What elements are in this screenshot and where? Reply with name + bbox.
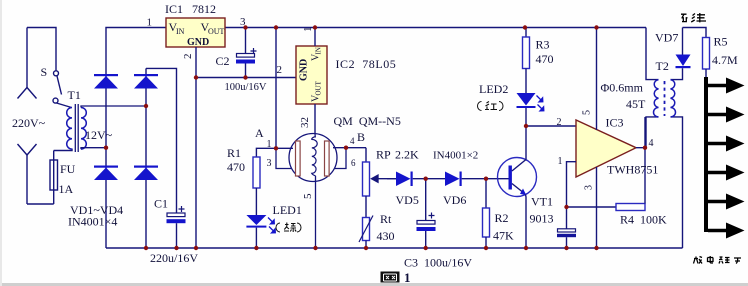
svg-text:47K: 47K [493,229,514,243]
svg-text:6: 6 [351,158,356,168]
op-amp IC3 TWH8751 triangle [576,120,636,177]
diode VD3 [94,168,118,181]
svg-text:QM QM--N5: QM QM--N5 [334,114,401,128]
node gnd link IC1 [194,75,198,79]
wire R5 to discharge bar [705,69,707,78]
svg-text:LED1: LED1 [273,203,302,217]
node B [344,146,348,150]
wire VD6 to VT1 base [462,178,509,180]
wire node B to RP [365,148,367,162]
plug prong lower [18,144,37,155]
wire ground bottom bus [106,247,683,249]
node R2 base [484,177,488,181]
wire switch to T1 primary [57,103,72,108]
wire IC1 pin2 GND down [195,47,197,248]
QM left pins [276,147,293,149]
svg-text:GND: GND [187,37,209,48]
node gnd IC3 pin3 [594,246,598,250]
edge artifacts [0,283,748,286]
svg-text:R1: R1 [227,146,241,160]
svg-text:9013: 9013 [530,212,554,226]
svg-text:C2: C2 [216,54,230,68]
svg-text:1: 1 [302,27,314,33]
label IC2 VIN [311,47,323,61]
svg-text:4: 4 [350,136,355,146]
IC1 7812 box [166,18,225,47]
svg-text:R4 100K: R4 100K [620,213,667,227]
svg-text:R5: R5 [714,35,728,49]
label IC2 VOUT [311,80,323,102]
node gnd VT1 [524,246,528,250]
svg-text:T2: T2 [656,59,669,73]
svg-text:100u/16V: 100u/16V [225,82,267,93]
wire bridge chain1 [105,75,107,248]
wire +12V to node A [275,28,277,149]
wire T2 secondary top to VD7 [671,68,683,79]
node top bus A [274,25,278,29]
node IC3 output [643,146,647,150]
wire output to R4 [644,148,646,204]
svg-text:5: 5 [302,193,314,199]
wire IC2 VOUT down to QM heater [314,104,316,134]
svg-text:OUT: OUT [208,27,225,36]
svg-text:2: 2 [557,117,562,128]
wire T1 secondary bottom to bridge [81,148,106,149]
wire bus end down to T2 primary [646,28,659,80]
svg-text:A: A [255,126,264,140]
capacitor C1 [167,206,186,248]
caption figure 1 [381,270,411,285]
node A [274,146,278,150]
svg-text:1: 1 [404,270,411,285]
svg-text:470: 470 [227,160,245,174]
svg-text:1: 1 [558,156,563,167]
label (green) [276,223,301,232]
wire RP wiper to VD5 [387,178,396,180]
svg-text:R2: R2 [495,211,509,225]
svg-text:220u/16V: 220u/16V [150,251,198,265]
svg-text:IC3: IC3 [606,116,624,130]
svg-text:GND: GND [299,59,310,81]
resistor R4 [616,204,645,211]
svg-text:VD6: VD6 [443,193,466,207]
discharge terminal bar and arrows [704,77,745,239]
node top bus C2 [243,25,247,29]
resistor R5 [703,38,710,70]
wire VT1 emitter down [525,195,528,249]
node LED2 collector [524,124,528,128]
node gnd C1 [174,246,178,250]
wire LED2/VT1 node to IC3 pin2 [526,125,576,127]
svg-text:IN: IN [176,27,185,36]
fuse FU [53,151,55,205]
svg-text:1: 1 [267,139,272,150]
node gnd C3 [424,246,428,250]
wire T2 primary bottom to output node [646,117,659,148]
wire T2 secondary bottom to ground [671,117,683,248]
svg-text:B: B [357,130,365,144]
svg-text:S: S [41,65,48,79]
QM heater coil [312,137,317,176]
svg-text:T1: T1 [68,88,81,102]
wire fuse to T1 primary [54,149,72,151]
wire plug top to switch [27,28,56,71]
node gnd QM5 [313,246,317,250]
svg-text:470: 470 [536,52,554,66]
wire IC3 pin5 to bus [596,28,598,131]
wire IC3 pin1 feedback [567,162,577,207]
node gnd Rt [364,246,368,250]
svg-text:1: 1 [147,17,153,29]
diode VD6 [445,172,462,187]
glyph red CJK [485,102,497,110]
wire RP to Rt [365,196,367,218]
bridge rectifier VD1~VD4 [106,68,177,248]
svg-text:FU: FU [60,162,76,176]
svg-text:IN4001×2: IN4001×2 [433,150,478,162]
svg-text:C1: C1 [154,197,168,211]
potentiometer RP [363,162,397,196]
svg-text:45T: 45T [626,97,646,111]
node bridge tap top [144,104,148,108]
svg-text:VD7: VD7 [655,31,678,45]
svg-text:3: 3 [240,16,246,28]
capacitor C3 [417,179,436,248]
svg-text:IN: IN [315,47,323,54]
svg-text:2: 2 [277,64,283,76]
wire IC2 pin VIN up to bus [314,28,316,47]
svg-text:IC1 7812: IC1 7812 [165,2,216,16]
transformer T2 [646,28,683,249]
wire IC3 pin3 to ground [596,167,598,248]
QM electrode right [325,141,330,176]
resistor R3 [523,28,530,94]
node IC3 pin1 [564,205,568,209]
QM pin bottom 5 [315,176,317,248]
svg-text:Rt: Rt [380,212,392,226]
node gnd LED1 [254,246,258,250]
wire top +12V bus [106,28,166,76]
transistor VT1 9013 [498,126,537,248]
svg-text:430: 430 [377,229,395,243]
diode VD2 [134,76,158,89]
diode VD4 [134,168,158,181]
glyph silicon stack CJK [681,13,706,22]
wire chain2 top jog to C1 [146,68,177,213]
svg-text:2.2K: 2.2K [395,148,419,162]
capacitor C4 [557,207,576,248]
glyph green CJK [284,223,296,233]
LED2 red [517,93,544,126]
svg-text:4.7M: 4.7M [712,53,738,67]
svg-text:C3 100u/16V: C3 100u/16V [404,256,472,270]
node bridge tap bottom [104,146,108,150]
label (red) [478,102,504,111]
wire VT1 collector up [525,126,527,160]
node top bus R3 [523,25,527,29]
node top bus IC3 pin5 [594,25,598,29]
svg-text:Φ0.6mm: Φ0.6mm [601,81,644,95]
resistor R2 [483,179,490,248]
svg-text:IN4001×4: IN4001×4 [68,215,117,229]
wire bridge chain2 [145,68,147,248]
wire T1 secondary top to bridge [81,106,146,108]
glyph discharge terminals CJK [694,256,742,264]
node top bus IC2 [313,25,317,29]
diode VD5 [396,172,413,187]
wire plug bottom to fuse [27,203,54,205]
wire VD7 to R5 [683,28,707,38]
IC2 78L05 box [296,46,327,104]
svg-text:32: 32 [299,117,311,128]
svg-text:RP: RP [376,148,391,162]
resistor R1 [253,157,260,188]
wire gnd link IC1 to IC2 [196,77,296,79]
wire IC3 output node [636,117,645,148]
transformer T1 [67,108,87,150]
wire VD5 to VD6 [413,178,445,180]
capacitor C2 [236,28,257,78]
svg-text:3: 3 [584,185,595,190]
svg-text:4: 4 [649,138,654,149]
diode VD1 [94,76,118,89]
QM pin top [314,134,316,138]
wire pin1 node to R4 [567,206,617,208]
QM right pins [333,147,366,149]
svg-text:VD5: VD5 [396,193,419,207]
wire top bus right of IC1 [225,27,646,29]
svg-text:2: 2 [182,54,194,60]
node VD5 VD6 C3 [424,177,428,181]
wire R1 to LED1 [255,188,257,215]
node gnd C4 [564,246,568,250]
QM electrode left [296,141,301,176]
thermistor Rt [359,216,373,249]
svg-text:3: 3 [267,158,272,169]
node gnd link C2 [243,75,247,79]
node gnd IC1 [194,246,198,250]
wire node A to R1 [256,148,276,157]
svg-text:220V~: 220V~ [12,116,46,130]
svg-text:VT1: VT1 [531,195,553,209]
svg-text:LED2: LED2 [479,82,508,96]
plug prong upper [26,28,28,88]
svg-text:OUT: OUT [315,80,323,95]
svg-text:1A: 1A [59,182,74,196]
svg-text:5: 5 [582,110,593,115]
svg-text:IC2 78L05: IC2 78L05 [336,57,397,71]
node gnd chain2 [144,246,148,250]
LED1 green [246,215,275,248]
node gnd R2 [484,246,488,250]
svg-text:12V~: 12V~ [85,128,113,142]
gas sensor QM-N5 [276,134,366,249]
svg-text:R3: R3 [536,38,550,52]
switch S [54,71,59,76]
svg-text:TWH8751: TWH8751 [607,163,658,177]
diode VD7 [676,28,691,69]
